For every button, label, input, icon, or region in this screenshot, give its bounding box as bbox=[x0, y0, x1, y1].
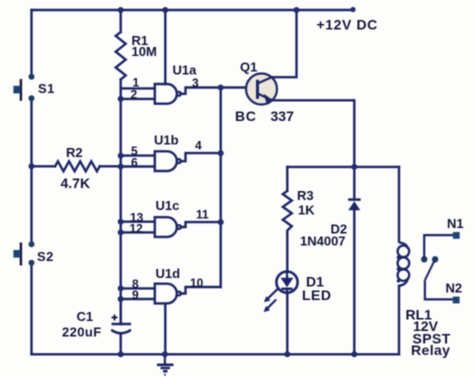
relay coil RL1 bbox=[397, 243, 410, 286]
diode D2 bbox=[348, 200, 361, 211]
wire bottom bus bbox=[32, 353, 400, 355]
svg-text:N1: N1 bbox=[447, 216, 464, 231]
wire D2 branch bbox=[353, 167, 355, 200]
junction pin13 input bus bbox=[118, 219, 124, 225]
svg-text:U1b: U1b bbox=[154, 132, 179, 147]
nand gate U1d bbox=[155, 284, 181, 304]
nand gate U1a bbox=[155, 84, 181, 104]
svg-text:N2: N2 bbox=[446, 281, 463, 296]
wire Q1 emitter bbox=[272, 100, 354, 167]
wire pin1 bbox=[121, 87, 155, 89]
svg-text:C1: C1 bbox=[77, 309, 94, 324]
wire relay coil bottom lead bbox=[398, 286, 400, 355]
junction R2 left bus bbox=[29, 163, 35, 169]
wire top bus bbox=[32, 9, 354, 11]
wire Q1 collector bbox=[272, 10, 297, 77]
wire LED to bottom bus bbox=[286, 293, 288, 355]
junction C1 bottom bus bbox=[118, 351, 124, 357]
wire pin6 bbox=[121, 165, 155, 167]
svg-text:9: 9 bbox=[132, 288, 139, 302]
svg-text:1K: 1K bbox=[298, 203, 315, 218]
junction pin5 input bus bbox=[118, 153, 124, 159]
svg-text:+12V DC: +12V DC bbox=[317, 17, 378, 33]
wire pin12 bbox=[121, 231, 155, 233]
svg-text:U1c: U1c bbox=[156, 198, 180, 213]
svg-text:337: 337 bbox=[271, 108, 295, 124]
pushbutton S1 bbox=[13, 74, 34, 102]
junction R1 top bus bbox=[118, 7, 124, 13]
svg-text:4.7K: 4.7K bbox=[61, 175, 91, 191]
led D1 bbox=[264, 272, 298, 313]
capacitor C1 bbox=[111, 315, 131, 334]
terminal N2 bbox=[453, 297, 460, 304]
junction pin11 output bus bbox=[218, 219, 224, 225]
wire relay coil top lead bbox=[398, 167, 400, 242]
wire U1b output pin4 bbox=[181, 153, 221, 161]
wire R2 right lead bbox=[100, 165, 121, 167]
svg-text:Relay: Relay bbox=[411, 342, 450, 358]
wire pin8 bbox=[121, 287, 155, 289]
wire U1a output pin3 bbox=[181, 88, 258, 94]
wire input bus bbox=[119, 80, 121, 325]
resistor R2 bbox=[55, 161, 100, 171]
junction pin9 C1 input bus bbox=[118, 296, 124, 302]
node +12V DC terminal bbox=[350, 7, 355, 12]
wire pin2 bbox=[121, 98, 155, 100]
svg-text:4: 4 bbox=[195, 139, 202, 153]
junction emitter rail bbox=[351, 164, 357, 170]
relay contacts bbox=[421, 232, 460, 303]
junction pin6 R2 input bus bbox=[118, 164, 124, 170]
wire R3 D2 relay top rail bbox=[287, 166, 399, 168]
svg-text:1N4007: 1N4007 bbox=[300, 234, 346, 249]
wire pin5 bbox=[121, 154, 155, 156]
resistor R3 bbox=[283, 191, 292, 234]
resistor R1 bbox=[116, 32, 126, 80]
wire D2 to bottom bus bbox=[353, 210, 355, 354]
nand gate U1c bbox=[155, 217, 181, 237]
wire U1d output pin10 bbox=[181, 287, 221, 294]
svg-text:12: 12 bbox=[130, 222, 144, 236]
wire output bus bbox=[219, 88, 221, 288]
wire pin13 bbox=[121, 220, 155, 222]
junction Q1 collector top bus bbox=[294, 7, 300, 13]
wire R2 left lead bbox=[32, 165, 56, 167]
svg-text:11: 11 bbox=[196, 208, 209, 222]
wire S1 to S2 bbox=[30, 100, 32, 243]
wire R3 top lead bbox=[286, 167, 288, 191]
junction pin4 output bus bbox=[218, 150, 224, 156]
svg-text:6: 6 bbox=[131, 156, 138, 170]
junction D2 bottom bus bbox=[351, 351, 357, 357]
svg-text:3: 3 bbox=[192, 76, 199, 90]
junction pin8 input bus bbox=[118, 285, 124, 291]
wire left bus upper (to S1) bbox=[30, 10, 32, 75]
junction U1a vdd top bus bbox=[162, 7, 168, 13]
wire U1a vdd pin14 bbox=[164, 10, 166, 84]
svg-text:S1: S1 bbox=[38, 81, 55, 96]
svg-text:LED: LED bbox=[302, 287, 332, 303]
junction D1 bottom bus bbox=[284, 351, 290, 357]
svg-text:2: 2 bbox=[131, 88, 138, 102]
wire R3 to LED bbox=[286, 234, 288, 272]
wire C1 top lead bbox=[119, 299, 121, 324]
transistor Q1 bbox=[246, 74, 277, 105]
junction ground bottom bus bbox=[162, 351, 168, 357]
svg-text:220uF: 220uF bbox=[62, 325, 102, 340]
junction pin12 input bus bbox=[118, 229, 124, 235]
svg-text:Q1: Q1 bbox=[240, 60, 257, 75]
wire R1 top lead bbox=[119, 10, 121, 32]
junction pin2 input bus bbox=[118, 96, 124, 102]
svg-text:10M: 10M bbox=[132, 44, 157, 59]
wire C1 bottom lead bbox=[119, 335, 121, 355]
wire U1c output pin11 bbox=[181, 222, 221, 227]
svg-text:R2: R2 bbox=[66, 145, 83, 160]
ground bbox=[157, 354, 174, 376]
svg-text:BC: BC bbox=[235, 108, 256, 124]
wire U1d gnd pin7 bbox=[164, 304, 166, 355]
svg-text:U1d: U1d bbox=[156, 266, 181, 281]
wire S2 to bottom bus bbox=[30, 265, 32, 355]
terminal N1 bbox=[453, 232, 460, 239]
svg-text:S2: S2 bbox=[37, 249, 54, 264]
nand gate U1b bbox=[155, 151, 181, 171]
pushbutton S2 bbox=[13, 241, 34, 265]
wire pin9 bbox=[121, 298, 155, 300]
svg-text:10: 10 bbox=[190, 276, 204, 290]
junction pin3 output bus bbox=[218, 85, 224, 91]
svg-text:R3: R3 bbox=[297, 188, 314, 203]
